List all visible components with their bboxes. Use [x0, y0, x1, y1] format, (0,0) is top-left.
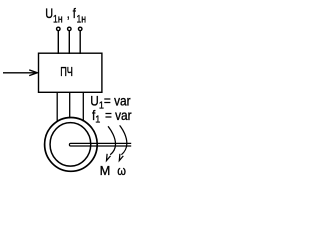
wire input phase 2	[68, 31, 70, 54]
terminal 3	[78, 27, 82, 31]
wire input phase 3	[79, 31, 81, 54]
frequency converter box PCh	[39, 53, 102, 92]
wire output phase 3	[82, 92, 84, 121]
svg-text:ω: ω	[117, 163, 126, 178]
wire output phase 2	[69, 92, 71, 118]
svg-text:ПЧ: ПЧ	[60, 66, 73, 80]
rotation arrow omega	[119, 125, 127, 160]
control input arrow	[3, 70, 37, 76]
svg-text:M: M	[100, 163, 111, 178]
rotation arrow M	[107, 126, 116, 160]
wire output phase 1	[56, 92, 58, 122]
motor M inner circle	[50, 123, 91, 167]
shaft	[69, 143, 131, 146]
terminal 2	[68, 27, 72, 31]
wire input phase 1	[57, 31, 59, 54]
terminal 1	[57, 27, 61, 31]
motor M outer circle	[45, 117, 98, 171]
